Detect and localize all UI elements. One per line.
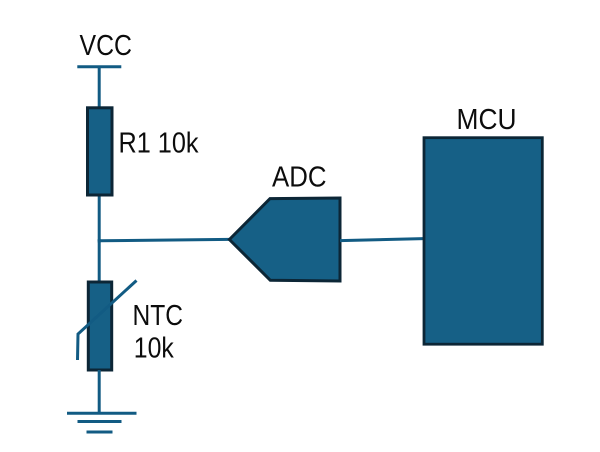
ground (67, 413, 137, 432)
wire VCC to R1 (98, 67, 101, 107)
MCU block (424, 138, 542, 345)
node junction (98, 239, 101, 243)
wire NTC to ground (98, 370, 101, 413)
wire ADC to MCU (340, 239, 423, 241)
svg-text:10k: 10k (134, 333, 174, 365)
wire R1 to node (98, 197, 101, 242)
svg-text:R1 10k: R1 10k (119, 128, 199, 160)
svg-text:MCU: MCU (457, 104, 517, 136)
thermistor NTC diagonal symbol (78, 281, 137, 361)
wire node to NTC (98, 240, 101, 282)
thermistor NTC (88, 282, 111, 370)
wire node to ADC (99, 239, 229, 240)
op-amp style block ADC (229, 198, 340, 281)
svg-text:NTC: NTC (133, 300, 184, 332)
svg-text:ADC: ADC (272, 162, 327, 194)
power symbol VCC rail (77, 65, 121, 68)
resistor R1 (88, 108, 113, 195)
svg-text:VCC: VCC (80, 30, 133, 62)
